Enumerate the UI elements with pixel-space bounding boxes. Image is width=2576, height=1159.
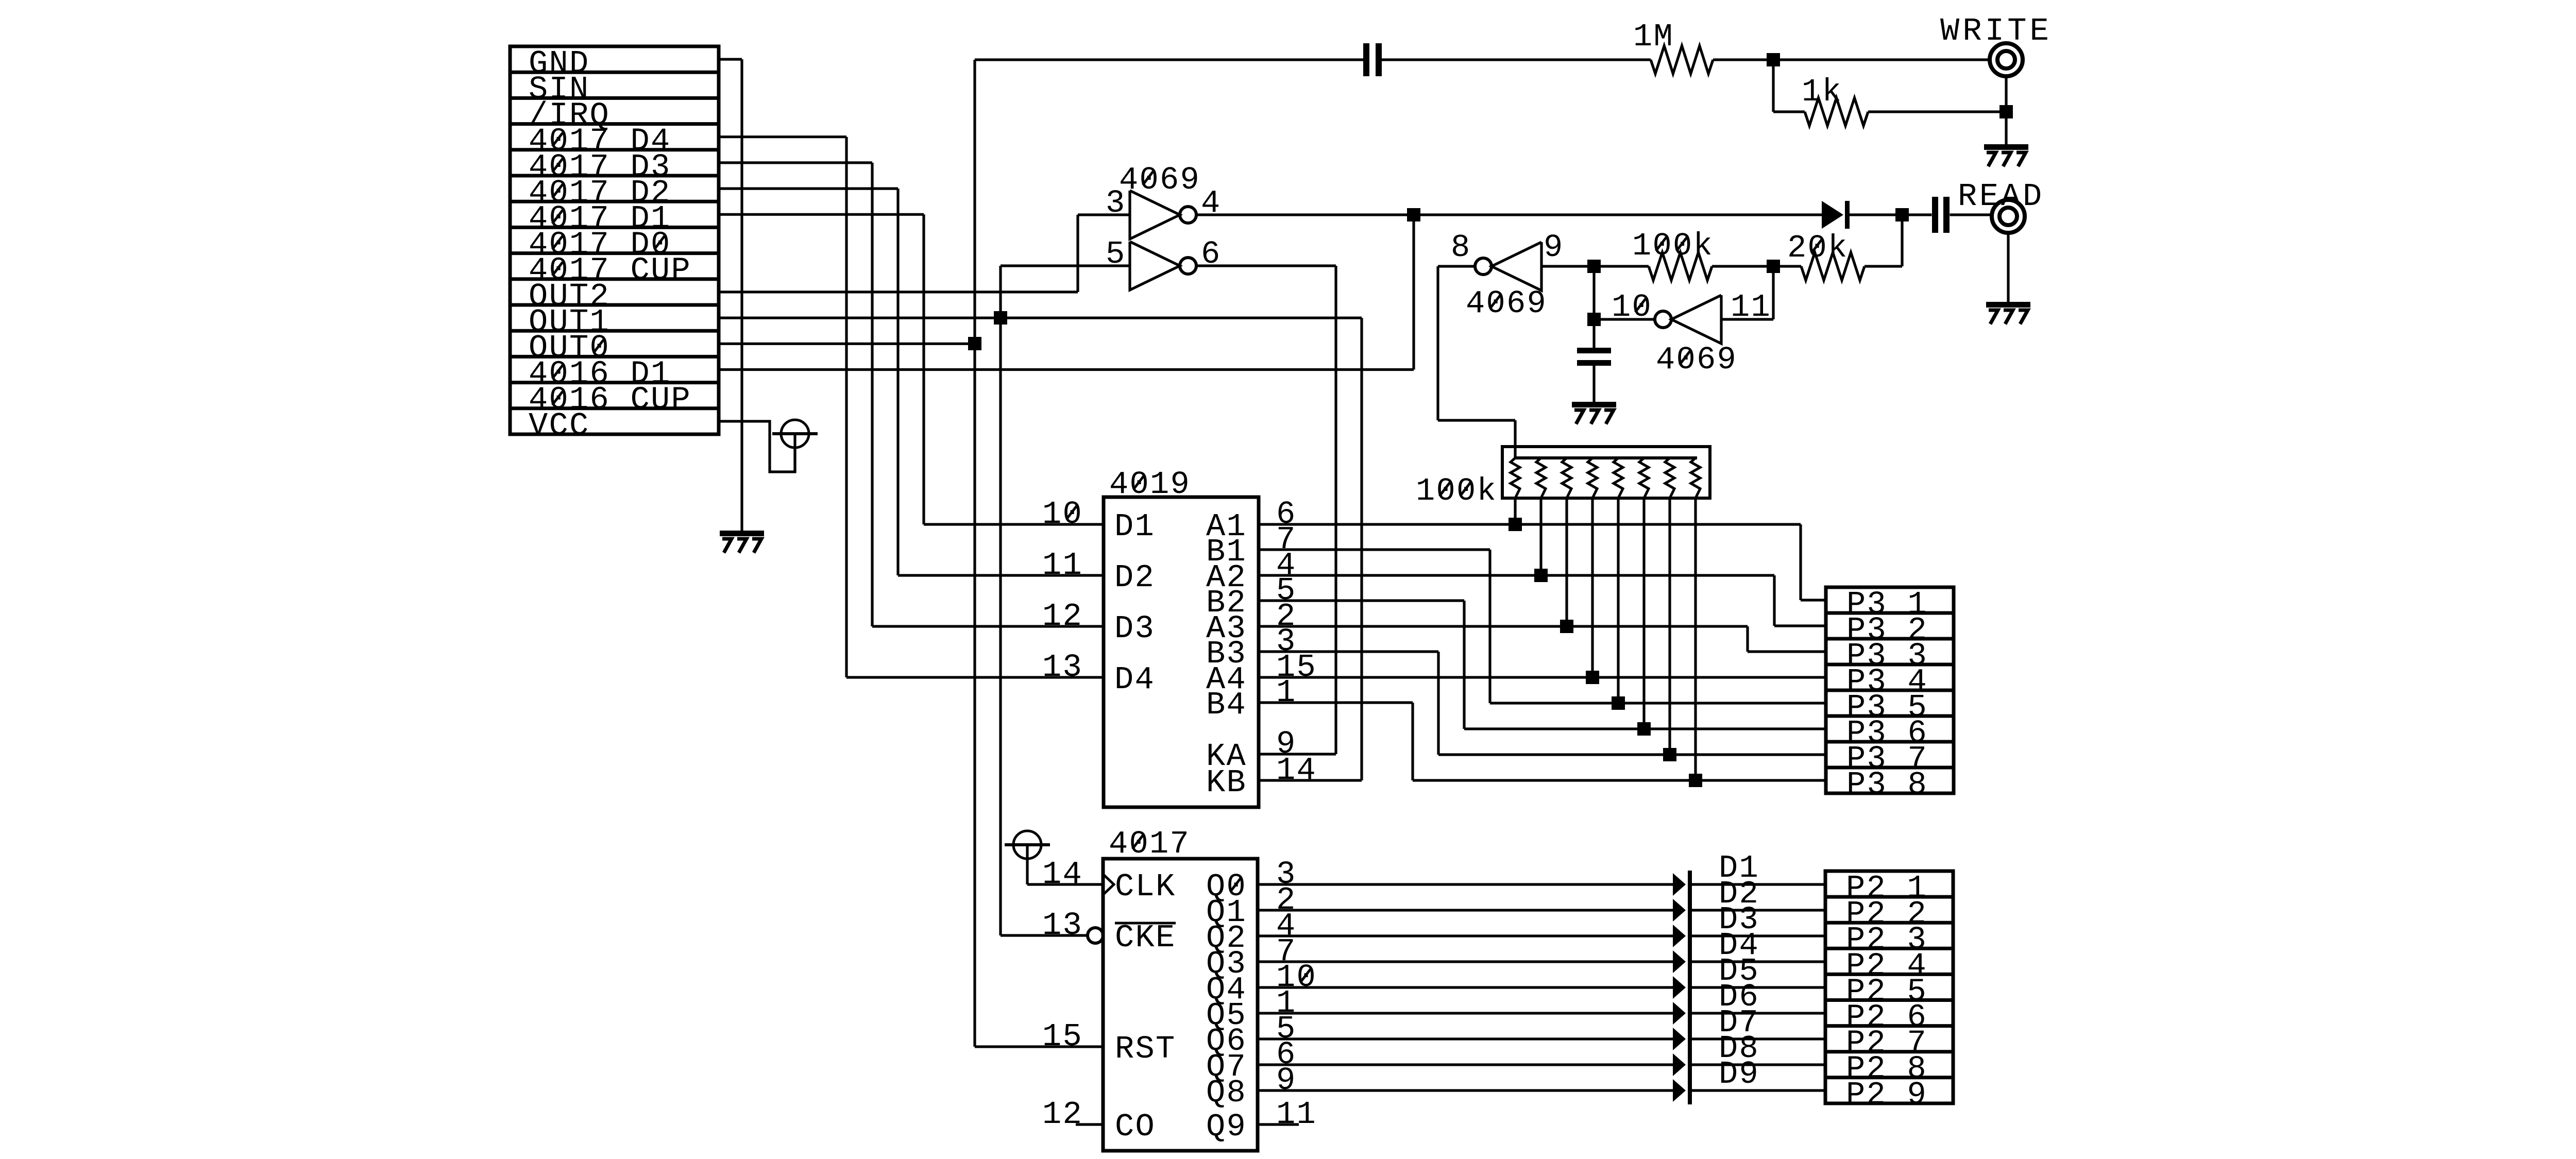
wire B1 to P3 5 xyxy=(1490,702,1826,704)
wire Q6 to diode xyxy=(1258,1037,1673,1040)
wire A3 to P3 3 xyxy=(1748,650,1826,653)
wire B2 to P3 6 xyxy=(1464,727,1826,730)
svg-text:CKE: CKE xyxy=(1115,919,1176,956)
wire D6 to P2 6 xyxy=(1692,1012,1825,1014)
wire to 4019 pin 10 xyxy=(924,523,1104,525)
wire VCC row xyxy=(719,421,795,472)
connector P2 box xyxy=(1825,871,1953,1103)
wire A1 to P3 1 xyxy=(1801,599,1826,601)
capacitor C1 xyxy=(1363,43,1369,76)
wire D5 to P2 5 xyxy=(1692,986,1825,988)
wire A2 line xyxy=(1259,574,1774,576)
svg-text:10: 10 xyxy=(1042,496,1083,533)
wire A3 line xyxy=(1259,625,1748,627)
connector P1 row divider xyxy=(510,381,719,384)
connector P1 row divider xyxy=(510,148,719,151)
IC U2 4019 box xyxy=(1104,497,1259,807)
wire A1 step down xyxy=(1799,524,1802,600)
wire 4017 D3 row xyxy=(719,161,872,164)
svg-text:B4: B4 xyxy=(1206,687,1247,723)
wire 1k right xyxy=(1868,110,2006,113)
wire OUT2 row xyxy=(719,291,1078,293)
junction lead 7 xyxy=(1663,748,1676,761)
wire to 4017 RST xyxy=(975,1045,1103,1048)
wire CO stub xyxy=(1076,1123,1103,1126)
resistor 100k xyxy=(1649,252,1712,280)
connector P1 row divider xyxy=(510,96,719,100)
wire 4017 D2 vertical xyxy=(896,189,899,575)
capacitor C2 xyxy=(1932,197,1938,233)
wire pin5 node vertical xyxy=(999,266,1002,935)
svg-text:9: 9 xyxy=(1276,1062,1297,1099)
wire 4016D1 vertical xyxy=(1412,215,1415,370)
resistor network common bar xyxy=(1515,456,1697,459)
connector P1 row divider xyxy=(510,277,719,281)
svg-text:14: 14 xyxy=(1276,752,1317,789)
wire OUT1 vertical to KB xyxy=(1360,318,1363,780)
power VCC 4017 xyxy=(1013,831,1041,859)
network resistor element 3 xyxy=(1562,458,1571,498)
network lead 8 xyxy=(1694,498,1697,780)
svg-text:4069: 4069 xyxy=(1656,342,1737,378)
bubble CKE xyxy=(1088,928,1103,943)
network resistor element 7 xyxy=(1665,458,1674,498)
connector P1 row divider xyxy=(510,355,719,359)
wire 100k to junction xyxy=(1712,265,1773,267)
wire to 4019 pin 13 xyxy=(846,676,1104,678)
network resistor element 8 xyxy=(1691,458,1700,498)
inverter U1A 3->4 xyxy=(1130,191,1180,239)
svg-text:5: 5 xyxy=(1106,236,1126,272)
resistor network RN1 box xyxy=(1502,447,1710,498)
diode D9 xyxy=(1673,1079,1686,1102)
junction READ/4016D1 xyxy=(1407,208,1420,221)
wire Q1 to diode xyxy=(1258,909,1673,911)
wire pin6 vertical to KA xyxy=(1334,266,1337,754)
diode D2 xyxy=(1673,899,1686,922)
wire OUT2 vertical xyxy=(1076,215,1079,292)
inverter U1B 5->6 xyxy=(1130,242,1180,290)
wire A2 to P3 2 xyxy=(1774,624,1826,627)
svg-text:Q9: Q9 xyxy=(1206,1109,1247,1145)
wire pin8 vertical xyxy=(1436,266,1439,420)
connector P1 row divider xyxy=(510,226,719,229)
wire Q0 to diode xyxy=(1258,883,1673,885)
connector P3 row divider xyxy=(1826,766,1954,770)
svg-text:D4: D4 xyxy=(1114,661,1155,698)
junction READ/20k xyxy=(1895,208,1909,221)
diode D5 xyxy=(1673,976,1686,999)
svg-text:9: 9 xyxy=(1544,229,1564,266)
junction 100k/20k xyxy=(1767,260,1780,273)
wire 4017 D1 row xyxy=(719,213,924,216)
connector P3 row divider xyxy=(1826,663,1954,667)
wire A4 line to P3 4 xyxy=(1259,676,1826,678)
svg-text:1: 1 xyxy=(1276,674,1297,711)
wire to 100k xyxy=(1594,265,1649,267)
junction OUT1/pin5 xyxy=(994,311,1007,325)
network lead 4 xyxy=(1591,498,1594,677)
wire junction to pin11 xyxy=(1772,266,1774,319)
svg-text:20k: 20k xyxy=(1787,230,1849,266)
wire Q5 to diode xyxy=(1258,1012,1673,1014)
wire READ jack ground stem xyxy=(2007,232,2009,302)
clock wedge CLK xyxy=(1103,874,1114,895)
connector P1 row divider xyxy=(510,303,719,307)
svg-text:11: 11 xyxy=(1042,547,1083,584)
svg-text:D2: D2 xyxy=(1114,559,1155,596)
connector P1 row divider xyxy=(510,406,719,410)
svg-text:13: 13 xyxy=(1042,907,1083,944)
connector P1 row divider xyxy=(510,174,719,178)
wire 20k vertical up xyxy=(1901,215,1903,266)
junction pin10/cap xyxy=(1587,313,1601,326)
wire C3 to ground xyxy=(1592,366,1595,402)
wire GND row to vertical xyxy=(719,58,742,60)
svg-text:CLK: CLK xyxy=(1115,868,1176,905)
wire D3 to P2 3 xyxy=(1692,934,1825,937)
junction lead 2 xyxy=(1534,569,1548,582)
connector P2 row divider xyxy=(1825,1076,1953,1079)
wire 1k branch vertical xyxy=(1772,60,1774,112)
svg-text:11: 11 xyxy=(1276,1096,1317,1133)
svg-text:4017: 4017 xyxy=(1109,826,1190,862)
IC U3 4017 box xyxy=(1103,859,1258,1151)
wire D1 to P2 1 xyxy=(1692,883,1825,885)
wire Q3 to diode xyxy=(1258,960,1673,963)
wire pin10 output xyxy=(1594,318,1655,320)
wire cap to 1M xyxy=(1382,58,1651,61)
diode D7 xyxy=(1673,1028,1686,1050)
wire B4 to P3 8 xyxy=(1413,779,1826,781)
wire to 4069 pin 3 xyxy=(1078,213,1130,216)
wire B3 vertical xyxy=(1437,652,1439,755)
svg-text:3: 3 xyxy=(1106,185,1126,221)
svg-text:100k: 100k xyxy=(1416,473,1497,509)
svg-text:1k: 1k xyxy=(1802,74,1842,110)
connector P3 row divider xyxy=(1826,714,1954,718)
wire D7 to P2 7 xyxy=(1692,1037,1825,1040)
wire to 4019 pin 11 xyxy=(898,574,1104,576)
wire A2 step down xyxy=(1773,575,1775,626)
wire 20k to corner xyxy=(1865,265,1902,267)
network lead 5 xyxy=(1617,498,1619,703)
wire OUT0 row xyxy=(719,343,975,345)
wire 4017 D2 row xyxy=(719,188,898,190)
svg-text:15: 15 xyxy=(1042,1018,1083,1055)
connector P1 row divider xyxy=(510,329,719,333)
diode D8 xyxy=(1673,1053,1686,1076)
svg-text:13: 13 xyxy=(1042,649,1083,686)
wire diode to junction xyxy=(1850,213,1902,216)
svg-text:READ: READ xyxy=(1958,178,2044,215)
network resistor element 6 xyxy=(1639,458,1649,498)
svg-text:1M: 1M xyxy=(1633,19,1674,55)
wire pin9node to pin10node xyxy=(1592,266,1595,319)
connector P2 row divider xyxy=(1825,1050,1953,1053)
connector P1 row divider xyxy=(510,71,719,74)
network resistor element 4 xyxy=(1588,458,1597,498)
svg-text:CO: CO xyxy=(1115,1109,1156,1145)
wire cap to READ jack xyxy=(1950,213,1993,216)
svg-text:P2 9: P2 9 xyxy=(1846,1077,1927,1113)
wire B3 line xyxy=(1259,650,1438,653)
wire GND vertical xyxy=(740,59,743,531)
ground C3 xyxy=(1572,402,1616,407)
connector P3 row divider xyxy=(1826,611,1954,615)
power VCC xyxy=(781,420,809,448)
wire WRITE-node vertical xyxy=(973,60,976,1047)
diode D4 xyxy=(1673,950,1686,973)
wire junction to WRITE jack xyxy=(1773,58,1991,61)
resistor 1k xyxy=(1805,98,1868,126)
connector P2 row divider xyxy=(1825,973,1953,976)
connector P1 box xyxy=(510,46,719,434)
connector P2 row divider xyxy=(1825,1024,1953,1028)
wire B1 vertical xyxy=(1488,550,1491,703)
connector P2 row divider xyxy=(1825,921,1953,925)
junction 1M/1k xyxy=(1767,53,1780,66)
inverter U1C 9->8 xyxy=(1492,242,1541,291)
wire 4017 D4 row xyxy=(719,135,846,138)
network lead 3 xyxy=(1565,498,1568,626)
junction pin9/100k xyxy=(1587,260,1601,273)
network resistor element 1 xyxy=(1511,458,1520,498)
connector P2 row divider xyxy=(1825,947,1953,950)
wire 4017 D3 vertical xyxy=(871,163,873,626)
wire D9 to P2 9 xyxy=(1692,1089,1825,1092)
svg-text:D3: D3 xyxy=(1114,610,1155,647)
inverter U1D 11->10 xyxy=(1671,295,1721,344)
connector P3 box xyxy=(1826,587,1954,793)
diode D6 xyxy=(1673,1002,1686,1025)
wire VCC to CLK xyxy=(1027,883,1103,885)
wire D4 to P2 4 xyxy=(1692,960,1825,963)
wire 1M to junction xyxy=(1713,58,1773,61)
wire Q8 to diode xyxy=(1258,1089,1673,1092)
wire D8 to P2 8 xyxy=(1692,1063,1825,1066)
ground WRITE xyxy=(1984,144,2028,150)
svg-text:KB: KB xyxy=(1206,764,1247,801)
wire 4069 pin5 input xyxy=(1001,264,1130,267)
wire 4017 D1 vertical xyxy=(922,214,925,524)
wire 4017 D4 vertical xyxy=(845,137,848,677)
wire B1 line xyxy=(1259,548,1490,551)
wire Q4 to diode xyxy=(1258,986,1673,988)
junction lead 1 xyxy=(1509,518,1522,531)
wire pin8 horizontal xyxy=(1438,419,1515,421)
svg-text:4019: 4019 xyxy=(1109,466,1191,503)
diode READ xyxy=(1822,201,1843,229)
svg-text:D1: D1 xyxy=(1114,508,1155,545)
svg-text:12: 12 xyxy=(1042,598,1083,635)
svg-text:12: 12 xyxy=(1042,1096,1083,1133)
svg-text:D9: D9 xyxy=(1719,1056,1759,1093)
network resistor element 2 xyxy=(1536,458,1546,498)
svg-text:VCC: VCC xyxy=(529,407,590,444)
wire Q9 stub xyxy=(1258,1123,1299,1126)
wire WRITE line xyxy=(975,58,1363,61)
network lead 7 xyxy=(1668,498,1671,755)
wire pin4 output (READ line) xyxy=(1196,213,1822,216)
wire A1 line xyxy=(1259,523,1801,525)
connector P1 row divider xyxy=(510,251,719,255)
wire D2 to P2 2 xyxy=(1692,909,1825,911)
wire B2 vertical xyxy=(1463,601,1465,729)
diode D3 xyxy=(1673,925,1686,947)
wire pin11 input xyxy=(1721,318,1773,320)
junction OUT0/RST xyxy=(968,337,981,350)
wire pin8 output xyxy=(1438,265,1475,267)
wire OUT1 row xyxy=(719,316,1362,319)
ground READ xyxy=(1986,302,2030,308)
junction lead 4 xyxy=(1586,671,1599,684)
network resistor element 5 xyxy=(1614,458,1623,498)
wire pin9 input xyxy=(1541,265,1594,267)
svg-text:8: 8 xyxy=(1451,229,1471,266)
svg-text:100k: 100k xyxy=(1632,228,1714,264)
wire to 4019 pin 12 xyxy=(872,625,1104,627)
junction lead 3 xyxy=(1560,620,1573,633)
wire Q2 to diode xyxy=(1258,934,1673,937)
connector P3 row divider xyxy=(1826,740,1954,744)
connector P2 row divider xyxy=(1825,895,1953,899)
wire Q7 to diode xyxy=(1258,1063,1673,1066)
svg-text:P3 8: P3 8 xyxy=(1846,766,1928,803)
network lead 6 xyxy=(1642,498,1645,729)
connector WRITE jack xyxy=(1990,43,2023,76)
wire B3 to P3 7 xyxy=(1438,753,1826,756)
resistor 1M xyxy=(1651,46,1713,74)
junction 1k/WRITE-gnd xyxy=(1999,105,2013,118)
svg-text:4069: 4069 xyxy=(1466,285,1547,322)
wire 1k left xyxy=(1773,110,1805,113)
wire KB to vertical xyxy=(1259,779,1362,781)
wire to 4017 CKE xyxy=(1001,934,1088,936)
wire WRITE jack ground stem xyxy=(2005,75,2007,144)
connector P2 row divider xyxy=(1825,998,1953,1002)
svg-text:WRITE: WRITE xyxy=(1940,13,2052,49)
junction lead 8 xyxy=(1689,774,1702,787)
svg-text:Q8: Q8 xyxy=(1206,1075,1247,1111)
connector P1 row divider xyxy=(510,122,719,126)
svg-text:RST: RST xyxy=(1115,1031,1176,1067)
connector P1 row divider xyxy=(510,200,719,203)
resistor 20k xyxy=(1801,252,1865,280)
wire junction to C3 xyxy=(1592,319,1595,348)
connector P3 row divider xyxy=(1826,637,1954,641)
wire A3 step down xyxy=(1746,626,1749,652)
capacitor C3 xyxy=(1577,348,1611,353)
wire pin6 output xyxy=(1196,264,1336,267)
connector READ jack xyxy=(1992,200,2025,233)
wire B2 line xyxy=(1259,599,1464,602)
wire to 20k xyxy=(1773,265,1801,267)
wire B4 line xyxy=(1259,701,1413,704)
wire into network xyxy=(1514,420,1516,458)
network lead 1 xyxy=(1514,498,1516,524)
diode D1 xyxy=(1673,873,1686,896)
svg-text:4069: 4069 xyxy=(1119,162,1200,198)
diode cathode rail xyxy=(1688,871,1692,1104)
network lead 2 xyxy=(1539,498,1542,575)
svg-text:14: 14 xyxy=(1042,856,1083,893)
junction lead 5 xyxy=(1612,696,1625,710)
connector P3 row divider xyxy=(1826,689,1954,692)
wire 4016 D1 row xyxy=(719,368,1414,371)
wire junction to cap xyxy=(1902,213,1932,216)
junction lead 6 xyxy=(1637,722,1651,736)
wire KA to vertical xyxy=(1259,753,1336,755)
wire B4 vertical xyxy=(1411,703,1414,780)
ground xyxy=(720,531,764,536)
